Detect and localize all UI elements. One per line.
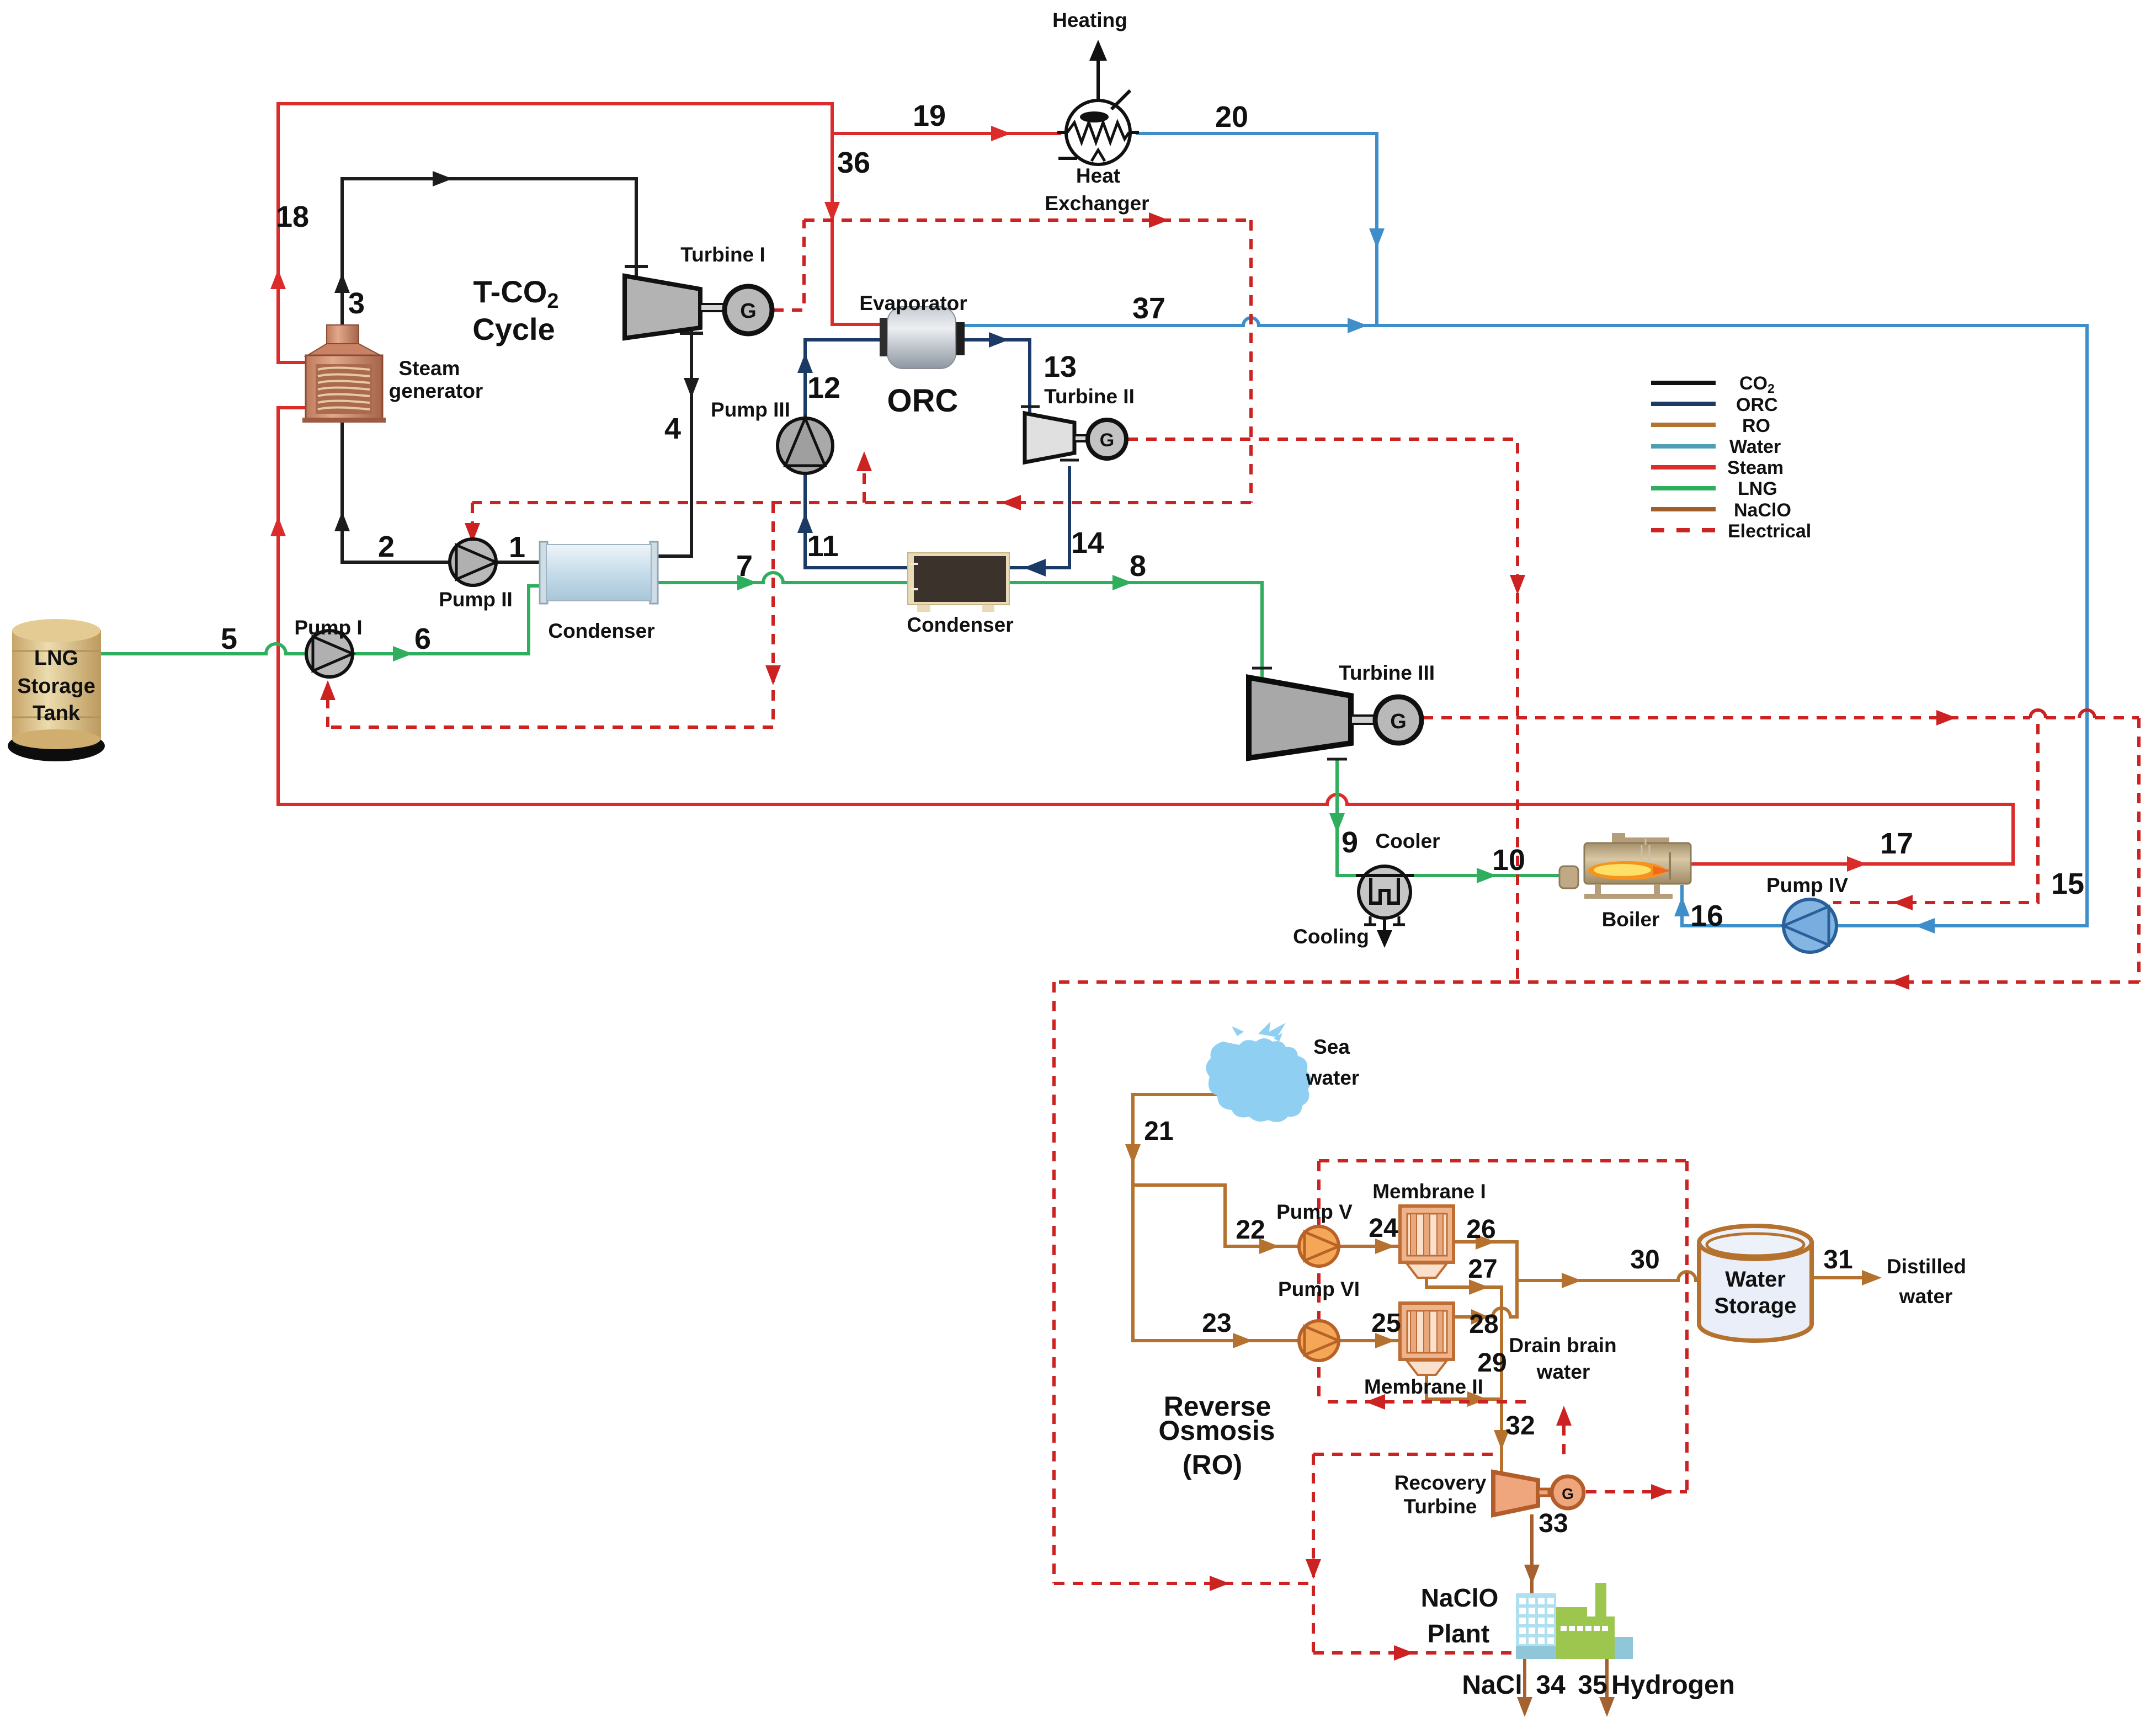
wire electrical NaClO box left <box>1312 1454 1315 1653</box>
hop RO line 30 over dashed vertical <box>1678 1272 1696 1281</box>
svg-text:29: 29 <box>1477 1348 1506 1378</box>
arrow electrical left on membrane box bottom <box>1365 1394 1385 1410</box>
svg-text:Exchanger: Exchanger <box>1045 192 1149 215</box>
wire electrical lower box bottom <box>328 725 773 729</box>
svg-text:26: 26 <box>1466 1215 1495 1244</box>
wire electrical horizontal y977 (to pump II) <box>472 501 1251 504</box>
svg-text:LNG: LNG <box>34 647 78 670</box>
generator G3 (Turbine III) <box>1375 697 1422 743</box>
wire electrical from generator G turbine III <box>1423 716 2030 719</box>
svg-text:4: 4 <box>664 412 681 445</box>
svg-text:Osmosis: Osmosis <box>1158 1415 1275 1446</box>
arrow RO right on line 31 <box>1862 1270 1882 1285</box>
svg-text:Steam: Steam <box>1727 457 1784 478</box>
wire CO2 line 2 (pump II -> steam generator) <box>342 421 450 562</box>
shaft recovery turbine <box>1538 1489 1549 1496</box>
cooler symbol <box>1356 866 1414 948</box>
wire LNG line 5 (tank -> pump I) <box>102 652 266 655</box>
wire ORC line 14 (turbine II -> condenser II) <box>1007 468 1069 568</box>
PIPES <box>342 179 701 562</box>
arrow RO right on line 29 <box>1467 1391 1487 1407</box>
wire steam boiler loop 17/return (boiler -> steam generator) <box>1347 804 2013 864</box>
arrow RO right on line 30 <box>1562 1273 1582 1288</box>
wire RO line 26 (membrane I -> junction) <box>1454 1242 1517 1317</box>
arrow NaCl down on line 34 <box>1517 1697 1532 1717</box>
arrow RO right on line 24 <box>1375 1239 1395 1254</box>
pump P5 (Pump V) <box>1299 1226 1339 1266</box>
wire electrical from generator G turbine II <box>1127 439 1518 982</box>
arrow NaClO down on line 33 <box>1524 1565 1540 1584</box>
wire water line 16 (pump IV -> boiler) <box>1682 887 1783 926</box>
evaporator (ORC) <box>880 307 965 369</box>
svg-text:LNG: LNG <box>1738 478 1777 499</box>
arrow RO right on line 23 <box>1233 1333 1253 1348</box>
arrow electrical up on NaClO stub <box>1556 1406 1572 1426</box>
arrow CO2 up on line 2 <box>334 511 350 531</box>
wire electrical membrane box bottom <box>1328 1400 1529 1404</box>
svg-text:Steam: Steam <box>398 357 460 380</box>
svg-text:30: 30 <box>1630 1245 1659 1274</box>
svg-text:Heat: Heat <box>1076 164 1120 187</box>
svg-text:NaClO: NaClO <box>1734 500 1791 521</box>
arrow water left on line 15 <box>1915 918 1935 933</box>
arrow electrical right on y399 <box>1149 212 1169 228</box>
svg-text:Drain brain: Drain brain <box>1509 1334 1616 1357</box>
svg-text:14: 14 <box>1071 526 1104 559</box>
svg-text:5: 5 <box>221 622 237 655</box>
wire electrical from generator G turbine I <box>773 220 804 310</box>
condenser C2 (ORC condenser, dark) <box>908 553 1009 612</box>
arrow RO down on line 21 <box>1125 1144 1141 1164</box>
node turbine II inlet tick <box>1021 406 1040 408</box>
svg-text:13: 13 <box>1044 350 1077 383</box>
svg-text:17: 17 <box>1880 827 1913 860</box>
svg-text:20: 20 <box>1215 100 1248 134</box>
wire electrical long horizontal y1780 (RO box top) <box>1054 980 2139 984</box>
wire ORC line 13 (evaporator -> turbine II) <box>965 340 1030 415</box>
svg-text:31: 31 <box>1823 1245 1852 1274</box>
LNG storage tank <box>8 619 105 761</box>
arrow electrical down into NaClO box <box>1306 1559 1321 1579</box>
arrow electrical right on G-III line <box>1936 710 1956 725</box>
arrow RO right on line 27 <box>1469 1279 1489 1295</box>
svg-text:9: 9 <box>1341 826 1358 859</box>
wire RO line 24 (pump V -> membrane I) <box>1337 1245 1401 1248</box>
heat exchanger symbol <box>1057 40 1139 164</box>
svg-text:RO: RO <box>1742 415 1770 436</box>
svg-text:18: 18 <box>276 200 309 233</box>
svg-text:Condenser: Condenser <box>548 620 654 642</box>
water storage tank <box>1699 1226 1812 1341</box>
node turbine III inlet tick <box>1252 667 1272 670</box>
arrow electrical left on y977 <box>1001 495 1021 510</box>
generator G4 (recovery turbine) <box>1552 1476 1584 1508</box>
membrane M2 (Membrane II) <box>1400 1303 1454 1375</box>
wire CO2 loop top (steam generator -> 3 -> turbine I) <box>342 179 636 325</box>
WIRES-BLUE <box>965 134 2087 926</box>
svg-text:Heating: Heating <box>1052 9 1127 31</box>
pump P1 (Pump I) <box>306 631 353 677</box>
sea water blob <box>1206 1022 1311 1122</box>
svg-text:Cooler: Cooler <box>1375 830 1440 852</box>
node turbine III outlet tick <box>1327 758 1347 761</box>
wire electrical NaClO box bottom <box>1313 1651 1513 1655</box>
svg-text:32: 32 <box>1505 1411 1535 1440</box>
svg-text:water: water <box>1306 1066 1360 1089</box>
wire electrical riser to pump III <box>863 458 866 503</box>
svg-text:Cycle: Cycle <box>472 312 555 346</box>
svg-text:Condenser: Condenser <box>907 613 1013 636</box>
svg-text:NaClO: NaClO <box>1421 1583 1499 1612</box>
wire electrical vertical x2267 <box>1249 220 1253 503</box>
svg-text:11: 11 <box>807 530 838 563</box>
pump P3 (Pump III) <box>778 418 833 473</box>
wire ORC line 12 (pump III -> evaporator) <box>805 340 886 417</box>
arrow LNG right on line 6 <box>393 646 413 661</box>
svg-text:ORC: ORC <box>1736 394 1778 415</box>
svg-text:Pump VI: Pump VI <box>1278 1278 1360 1300</box>
svg-text:36: 36 <box>837 146 870 179</box>
arrow electrical up to pump III <box>856 451 872 471</box>
arrow steam right on line 19 <box>991 126 1011 141</box>
svg-text:(RO): (RO) <box>1183 1449 1242 1480</box>
turbine T3 (Turbine III) <box>1249 677 1351 758</box>
svg-text:27: 27 <box>1468 1255 1497 1284</box>
wire CO2 line 1 (pump II -> condenser) <box>496 561 544 564</box>
wire RO line 29 (membrane II bottom -> drain) <box>1426 1378 1502 1399</box>
svg-text:35: 35 <box>1578 1671 1607 1700</box>
WIRES-BROWN <box>1133 1095 1871 1709</box>
arrow steam down on line 36 <box>824 202 840 222</box>
pump P6 (Pump VI) <box>1299 1321 1339 1360</box>
wire electrical stub to NaClO box <box>1562 1412 1566 1454</box>
arrow CO2 up on line 3 <box>334 273 350 293</box>
wire LNG line 10 (cooler -> boiler) <box>1408 874 1561 877</box>
wire electrical from recovery turbine G <box>1586 1490 1687 1493</box>
svg-text:G: G <box>740 300 757 323</box>
svg-text:6: 6 <box>414 622 431 655</box>
arrow electrical down on x2750 <box>1510 575 1525 595</box>
legend <box>1651 373 1811 542</box>
svg-text:3: 3 <box>348 287 365 320</box>
arrow LNG right on line 7 <box>737 575 757 590</box>
svg-text:Water: Water <box>1729 436 1781 457</box>
arrow LNG right on line 10 <box>1477 868 1497 883</box>
arrow steam right on line 17 <box>1847 856 1867 872</box>
svg-text:12: 12 <box>807 371 840 404</box>
svg-text:Electrical: Electrical <box>1728 521 1811 542</box>
svg-text:Water: Water <box>1725 1267 1786 1292</box>
svg-text:Storage: Storage <box>17 675 95 698</box>
arrow LNG down on line 9 <box>1329 813 1345 833</box>
wire RO line 28 (membrane II -> junction) <box>1454 1315 1493 1319</box>
node turbine II outlet tick <box>1060 459 1079 462</box>
condenser C1 (CO2/LNG condenser) <box>540 542 658 604</box>
wire electrical membrane box right vertical <box>1685 1161 1689 1492</box>
svg-text:Membrane II: Membrane II <box>1364 1375 1483 1398</box>
svg-text:Turbine: Turbine <box>1404 1495 1477 1518</box>
arrow water up on line 16 <box>1674 897 1690 916</box>
wire electrical riser to pump I <box>326 687 329 727</box>
sea water blob spikes <box>1232 1022 1286 1042</box>
svg-text:T-CO2: T-CO2 <box>473 274 559 313</box>
WIRES-DASHED <box>328 220 2139 1653</box>
arrow electrical left to pump IV <box>1893 895 1913 910</box>
svg-text:22: 22 <box>1236 1215 1265 1245</box>
arrow ORC up on line 11 <box>797 513 813 533</box>
generator G1 (Turbine I) <box>725 286 772 334</box>
arrow ORC up on line 12 <box>797 353 813 373</box>
svg-text:16: 16 <box>1690 899 1723 932</box>
wire LNG line 9 (turbine III -> cooler) <box>1337 761 1361 876</box>
svg-text:Pump V: Pump V <box>1276 1201 1353 1223</box>
membrane M1 (Membrane I) <box>1400 1206 1454 1278</box>
arrow LNG right on line 8 <box>1112 575 1132 590</box>
wire RO line 27 (membrane I bottom -> drain) <box>1426 1278 1502 1287</box>
svg-text:34: 34 <box>1536 1671 1566 1700</box>
arrow electrical right on NaClO box bottom <box>1394 1645 1414 1661</box>
arrow electrical up to pump I <box>320 680 336 700</box>
wire RO line 21/23 (sea water -> pump VI) <box>1133 1095 1301 1341</box>
svg-text:33: 33 <box>1539 1509 1568 1538</box>
svg-text:Turbine III: Turbine III <box>1339 661 1435 684</box>
wire water line 20 (heat exchanger -> down) <box>1137 134 1377 324</box>
shaft turbine II <box>1074 435 1088 441</box>
svg-text:21: 21 <box>1144 1117 1173 1146</box>
wire RO line 22 (branch -> pump V) <box>1133 1185 1301 1246</box>
wire steam return left segment <box>278 408 1327 804</box>
node turbine I inlet tick <box>626 265 646 268</box>
NaClO plant buildings <box>1516 1583 1633 1659</box>
wire electrical NaClO box top <box>1313 1453 1500 1456</box>
wire electrical RO box left vertical <box>1052 982 1056 1583</box>
svg-text:Storage: Storage <box>1715 1294 1797 1318</box>
wire electrical drop to pump II <box>471 503 474 533</box>
svg-text:Recovery: Recovery <box>1394 1471 1487 1494</box>
wire LNG line 6 (pump I -> condenser) <box>353 586 545 654</box>
WIRES-RED <box>278 104 2013 864</box>
svg-text:Turbine I: Turbine I <box>680 243 765 266</box>
svg-text:G: G <box>1100 430 1114 451</box>
wire electrical RO box bottom <box>1054 1582 1313 1585</box>
turbine T2 (Turbine II) <box>1025 413 1074 462</box>
boiler <box>1559 833 1691 899</box>
svg-text:Pump II: Pump II <box>439 588 513 611</box>
arrow CO2 down on line 4 <box>684 378 699 398</box>
svg-text:Evaporator: Evaporator <box>859 292 967 314</box>
svg-text:Distilled: Distilled <box>1887 1255 1966 1278</box>
svg-text:Turbine II: Turbine II <box>1044 385 1135 408</box>
wire electrical riser line 15 to pump IV <box>1833 724 2038 903</box>
hop RO line 28 over drain pipe <box>1493 1308 1510 1317</box>
arrow steam up on return to steam generator <box>270 516 286 536</box>
svg-text:water: water <box>1536 1360 1590 1383</box>
wire steam line 18 (steam generator -> up) <box>278 104 832 362</box>
wire electrical membrane box left (through pumps V,VI) <box>1317 1161 1321 1402</box>
wire water line 37 (evaporator -> right) <box>965 324 1243 327</box>
wire RO line 25 (pump VI -> membrane II) <box>1337 1339 1401 1342</box>
arrow RO right on line 22 <box>1259 1239 1279 1254</box>
wire LNG line 8 (condenser II -> turbine III) <box>1005 583 1262 681</box>
shaft turbine III <box>1351 716 1375 724</box>
wire steam line 19 (to heat exchanger) <box>832 132 1060 135</box>
hop LNG over red vertical <box>266 644 286 654</box>
wire RO line 31 (water storage -> distilled water) <box>1813 1276 1871 1279</box>
svg-text:Pump III: Pump III <box>711 398 790 421</box>
svg-text:ORC: ORC <box>887 383 959 419</box>
wire CO2 line 4 (turbine I -> condenser) <box>657 331 691 556</box>
wire LNG line 7 (condenser -> condenser II) <box>654 581 763 584</box>
arrow ORC right on line 13 <box>989 332 1009 348</box>
svg-text:23: 23 <box>1202 1309 1231 1338</box>
wire LNG line 5b <box>286 652 307 655</box>
svg-text:G: G <box>1562 1485 1574 1502</box>
svg-text:Plant: Plant <box>1428 1619 1489 1648</box>
arrow water right on line 37 <box>1348 318 1367 333</box>
arrow CO2 right on top loop <box>433 171 453 186</box>
wire RO line 30 (junction -> water storage) <box>1517 1279 1678 1282</box>
svg-text:10: 10 <box>1492 844 1525 877</box>
svg-text:15: 15 <box>2051 867 2084 900</box>
wire LNG line 7b <box>783 581 912 584</box>
arrow water down on line 20 <box>1369 228 1385 248</box>
svg-text:Boiler: Boiler <box>1602 908 1660 931</box>
wire ORC line 11 (condenser II -> pump III) <box>805 474 911 568</box>
svg-text:8: 8 <box>1130 549 1146 583</box>
svg-text:NaCl: NaCl <box>1462 1671 1522 1700</box>
wire water line 37/15 (right and down to pump IV) <box>1259 326 2087 926</box>
svg-text:25: 25 <box>1371 1309 1401 1338</box>
arrow steam up on line 18 <box>270 269 286 289</box>
wire NaCl line 34 (plant output) <box>1523 1659 1526 1709</box>
arrow electrical right on RO box bottom <box>1210 1576 1229 1591</box>
wire electrical top horizontal to pumps loop <box>804 218 1251 222</box>
pump P4 (Pump IV) <box>1784 899 1836 952</box>
arrow RO right on line 28 <box>1471 1309 1489 1325</box>
shaft turbine I <box>700 304 725 311</box>
svg-text:generator: generator <box>389 380 483 402</box>
arrow electrical down at x1401 <box>765 665 781 685</box>
arrow hydrogen down on line 35 <box>1599 1697 1615 1717</box>
hop water over dashed vertical <box>1243 318 1259 326</box>
hop LNG over dashed vertical <box>763 573 783 583</box>
svg-text:37: 37 <box>1132 292 1165 325</box>
WIRES-GREEN <box>102 573 1561 876</box>
svg-text:Cooling: Cooling <box>1293 925 1369 948</box>
svg-text:7: 7 <box>736 549 753 583</box>
node turbine I outlet tick <box>682 332 701 335</box>
arrow electrical down to pump II <box>465 523 480 543</box>
WIRES-NAVY <box>805 340 1069 568</box>
pump P2 (Pump II) <box>450 539 496 585</box>
wire electrical membrane box top <box>1319 1159 1687 1162</box>
svg-text:24: 24 <box>1369 1214 1398 1243</box>
arrow electrical right from recovery G <box>1651 1484 1671 1500</box>
svg-text:water: water <box>1899 1285 1953 1308</box>
svg-text:2: 2 <box>378 530 395 563</box>
wire RO drain-brine vertical 32 (-> recovery turbine) <box>1500 1287 1503 1470</box>
hop electrical over blue water line <box>2079 710 2095 718</box>
generator G2 (Turbine II) <box>1088 420 1126 458</box>
arrow RO right on line 26 <box>1476 1234 1495 1250</box>
svg-text:1: 1 <box>509 531 525 564</box>
arrow RO down on line 32 <box>1494 1430 1509 1450</box>
turbine T1 (Turbine I) <box>625 276 700 338</box>
wire steam line 36 (down to evaporator) <box>832 104 886 324</box>
arrow ORC left on line 14 <box>1024 559 1046 577</box>
steam generator vessel <box>302 325 386 423</box>
svg-text:Pump IV: Pump IV <box>1766 874 1848 897</box>
svg-text:28: 28 <box>1469 1310 1498 1339</box>
hop steam over green line 9 <box>1327 794 1347 804</box>
svg-text:Membrane I: Membrane I <box>1372 1180 1486 1203</box>
arrow electrical left on y1780 <box>1889 974 1909 990</box>
wire NaClO line 33 (recovery turbine -> plant) <box>1530 1516 1534 1592</box>
svg-text:19: 19 <box>913 99 946 132</box>
svg-text:Tank: Tank <box>33 702 81 725</box>
wire hydrogen line 35 (plant output) <box>1605 1659 1609 1709</box>
svg-text:Hydrogen: Hydrogen <box>1611 1671 1735 1700</box>
hop electrical over line 15 riser <box>2030 710 2046 718</box>
svg-text:Sea: Sea <box>1313 1036 1350 1058</box>
svg-text:G: G <box>1390 710 1407 733</box>
arrow RO right on line 25 <box>1375 1333 1395 1348</box>
recovery turbine <box>1493 1472 1538 1515</box>
wire electrical right vertical <box>2137 718 2141 982</box>
wire electrical drop to lower box <box>771 503 775 727</box>
svg-text:Pump I: Pump I <box>294 616 362 639</box>
